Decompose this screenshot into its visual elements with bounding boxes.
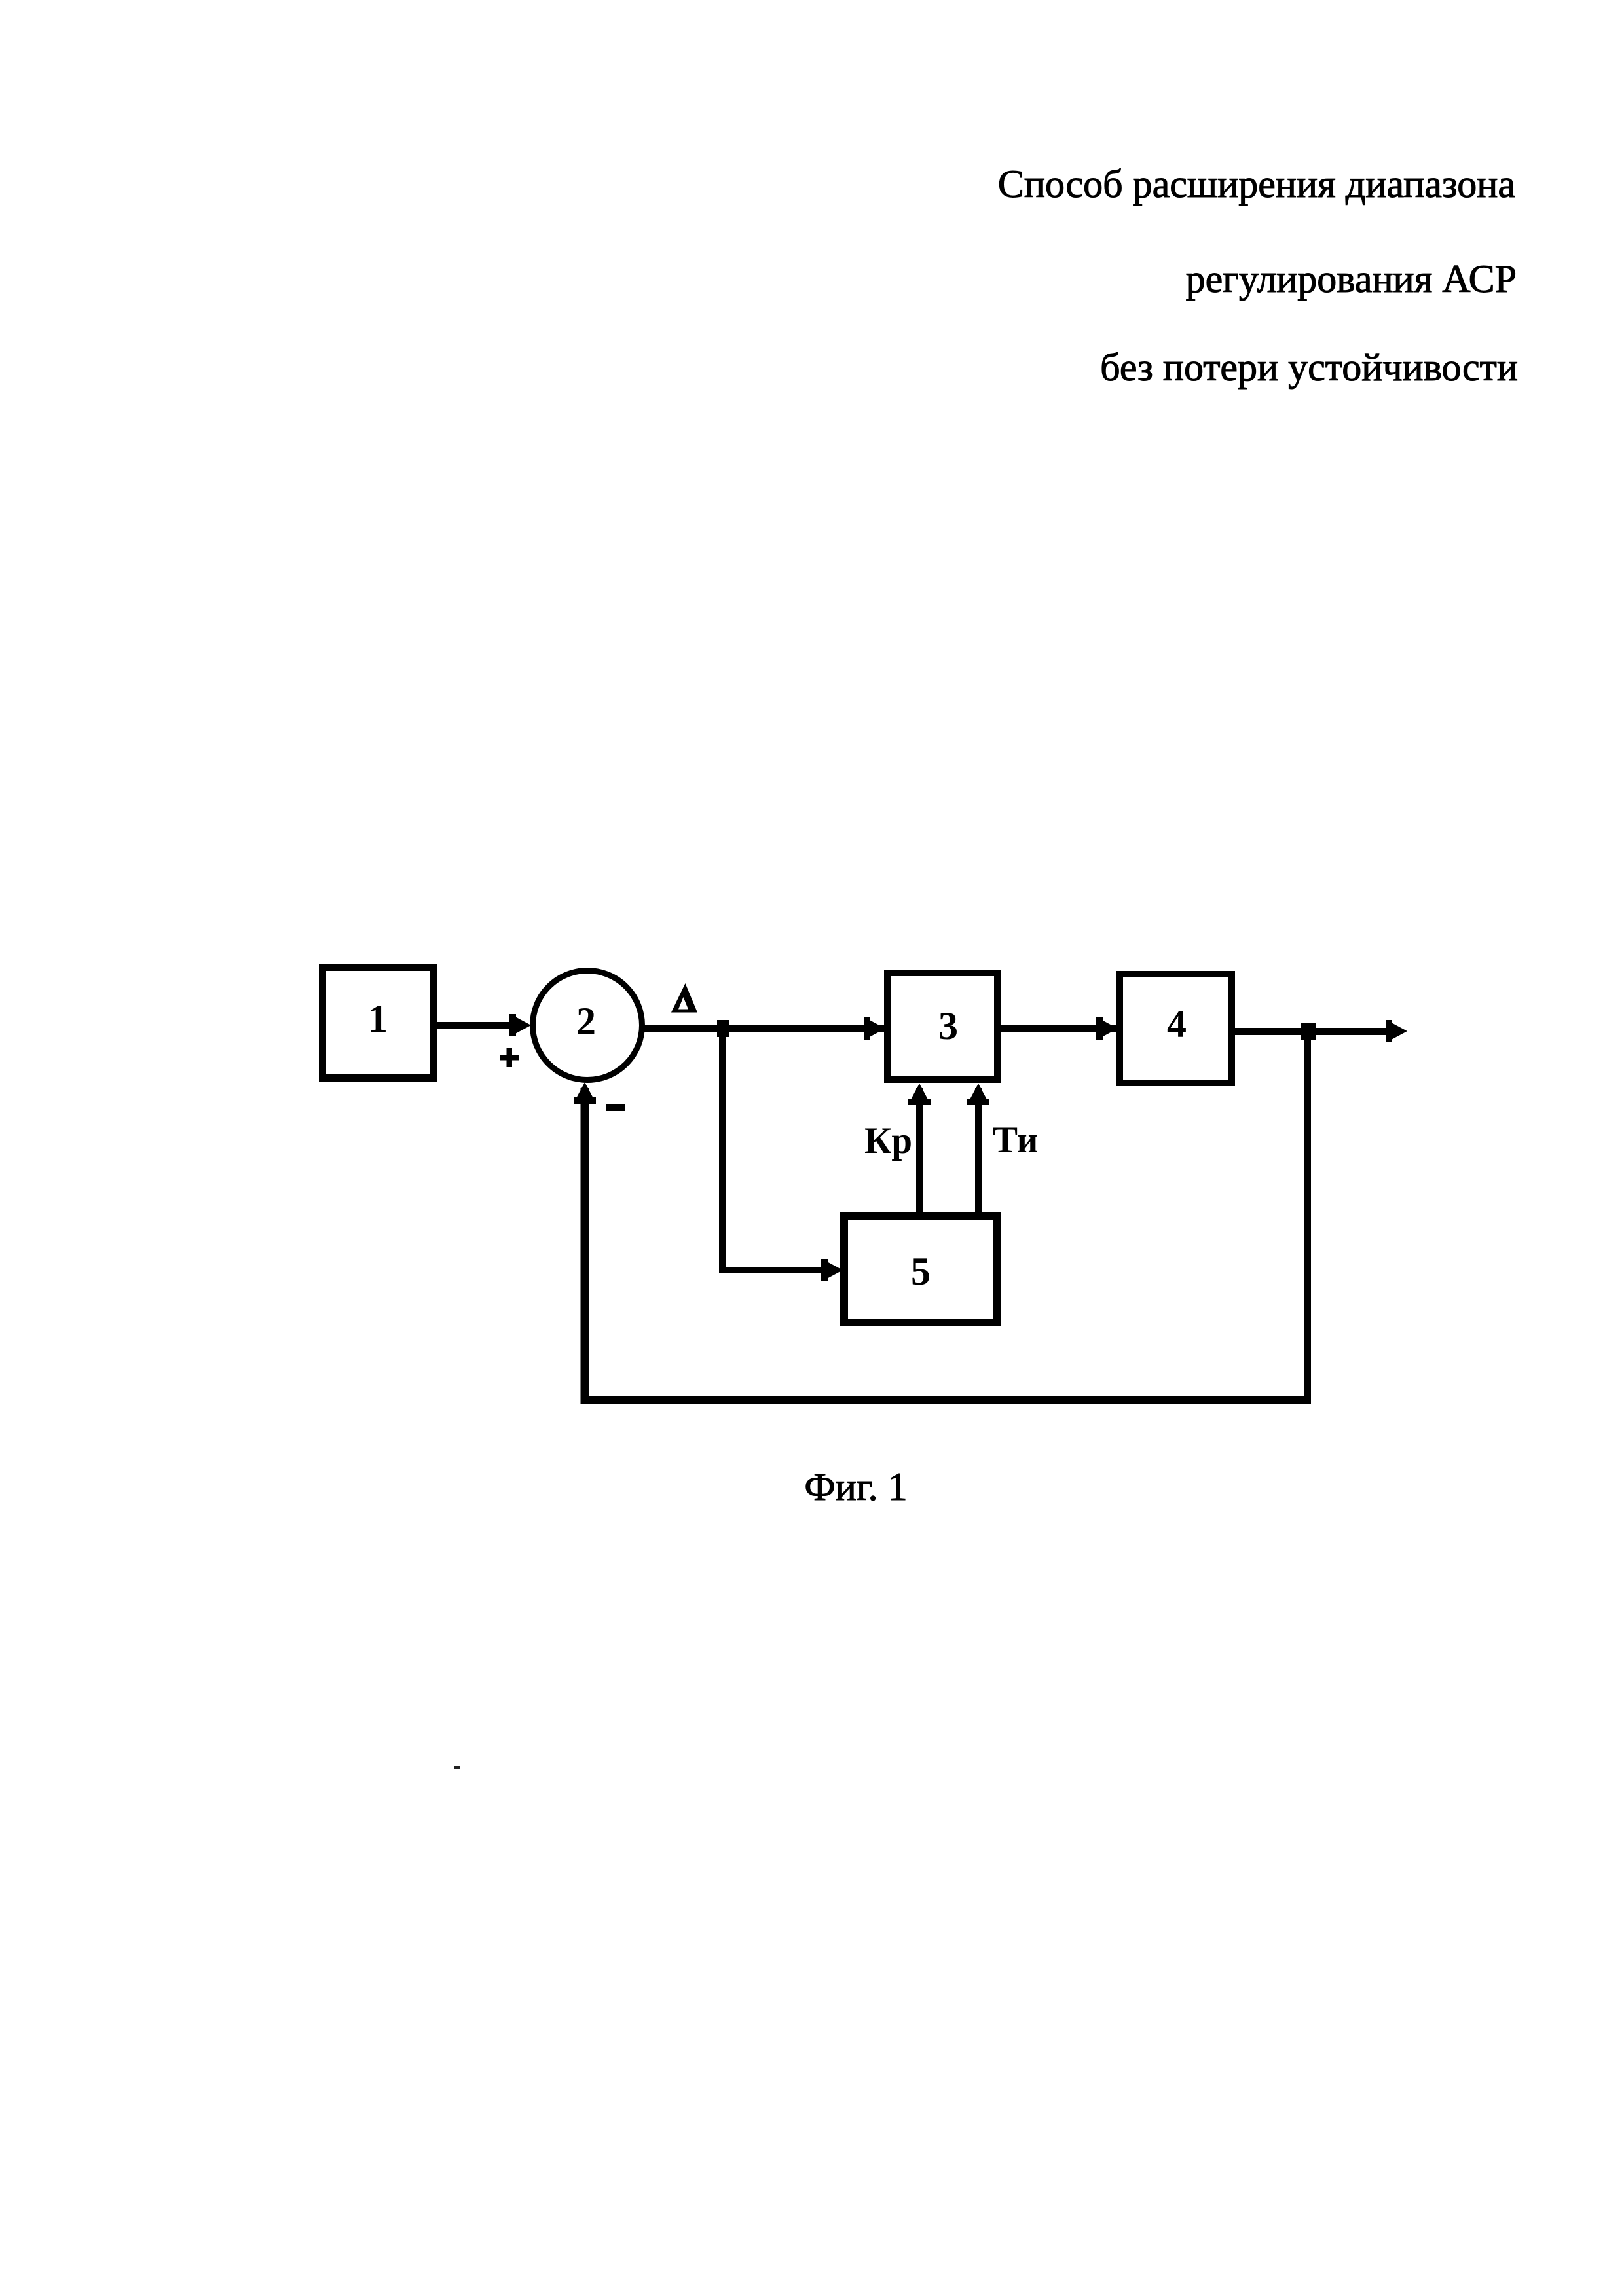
scan speck — [454, 1766, 460, 1769]
plus sign — [500, 1048, 519, 1067]
wire Ti from block5 to block3 — [975, 1088, 982, 1216]
block 3 — [887, 973, 997, 1080]
feedback wire up to summer — [581, 1088, 589, 1400]
arrowhead into summer bottom — [574, 1082, 596, 1104]
label delta — [671, 983, 697, 1013]
svg-text:1: 1 — [368, 997, 388, 1040]
svg-text:4: 4 — [1167, 1002, 1187, 1046]
svg-text:Ти: Ти — [993, 1120, 1038, 1161]
wire branch down from delta node — [719, 1029, 726, 1270]
wire block3 to block4 — [1001, 1025, 1116, 1032]
output node junction — [1301, 1023, 1316, 1040]
wire Kp from block5 to block3 — [916, 1088, 923, 1216]
block 5 — [844, 1216, 997, 1322]
svg-text:2: 2 — [576, 1000, 596, 1043]
svg-text:Способ расширения диапазона: Способ расширения диапазона — [998, 162, 1515, 206]
wire block1 to summer — [434, 1022, 513, 1029]
arrowhead into block5 — [821, 1259, 843, 1281]
output arrowhead — [1386, 1020, 1407, 1042]
arrowhead into block3 — [864, 1017, 885, 1040]
arrowhead into block4 — [1096, 1017, 1118, 1040]
wire branch to block5 — [719, 1267, 822, 1273]
svg-text:5: 5 — [911, 1250, 931, 1293]
minus sign — [606, 1104, 625, 1111]
wire block4 to output — [1235, 1028, 1388, 1035]
feedback wire bottom — [581, 1396, 1312, 1404]
feedback wire down from output node — [1304, 1031, 1311, 1400]
arrowhead into summer — [509, 1014, 531, 1036]
svg-text:регулирования АСР: регулирования АСР — [1186, 257, 1517, 301]
svg-text:3: 3 — [938, 1004, 958, 1048]
svg-text:без потери устойчивости: без потери устойчивости — [1100, 346, 1518, 389]
summing junction 2 — [533, 971, 642, 1080]
node junction after summer — [717, 1020, 729, 1037]
arrowhead Kp into block3 — [908, 1084, 931, 1105]
arrowhead Ti into block3 — [967, 1084, 989, 1105]
wire summer to block3 — [642, 1025, 884, 1032]
svg-text:Кр: Кр — [864, 1120, 912, 1161]
svg-text:Фиг. 1: Фиг. 1 — [804, 1465, 907, 1508]
block 4 — [1120, 974, 1232, 1083]
block 1 — [323, 968, 434, 1078]
